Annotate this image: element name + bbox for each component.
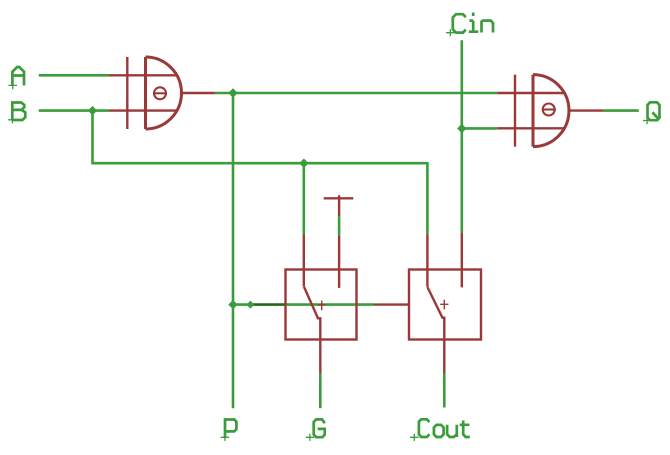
label B xyxy=(8,103,25,124)
wire into S1 xyxy=(233,303,250,306)
xor gate U1 xyxy=(109,57,215,129)
switch S1 xyxy=(286,235,357,374)
xor gate U2 xyxy=(497,75,603,147)
wire Q xyxy=(603,109,639,112)
wire A input xyxy=(39,74,109,77)
wire B input xyxy=(39,109,109,112)
wire through S1 xyxy=(286,303,375,306)
wire P vertical xyxy=(232,93,235,408)
switch S2 xyxy=(374,232,481,373)
power symbol T xyxy=(324,195,354,216)
label P xyxy=(221,420,237,441)
wire net1 (xor1 out to xor2 in) xyxy=(215,92,498,95)
node S1 pin junction xyxy=(246,301,254,309)
wire Cin vertical xyxy=(460,40,463,232)
wire G xyxy=(319,373,322,408)
label Cout xyxy=(410,419,470,441)
wire T link xyxy=(338,216,341,236)
label Q xyxy=(643,102,660,124)
node net2 branch junction xyxy=(299,159,308,168)
wire Cin branch to xor2 xyxy=(462,127,498,130)
wire Cout xyxy=(443,373,446,408)
node Cin branch junction xyxy=(457,124,466,133)
wire net2 (B branch) xyxy=(93,111,428,235)
wire branch to S1 xyxy=(302,163,305,234)
node B junction xyxy=(88,106,97,115)
node P junction xyxy=(228,300,237,309)
label A xyxy=(9,67,25,89)
node xor1-out junction xyxy=(228,88,237,97)
pin S1 left (wire overlap) xyxy=(250,303,285,306)
label G xyxy=(306,419,325,441)
label Cin xyxy=(446,13,493,37)
